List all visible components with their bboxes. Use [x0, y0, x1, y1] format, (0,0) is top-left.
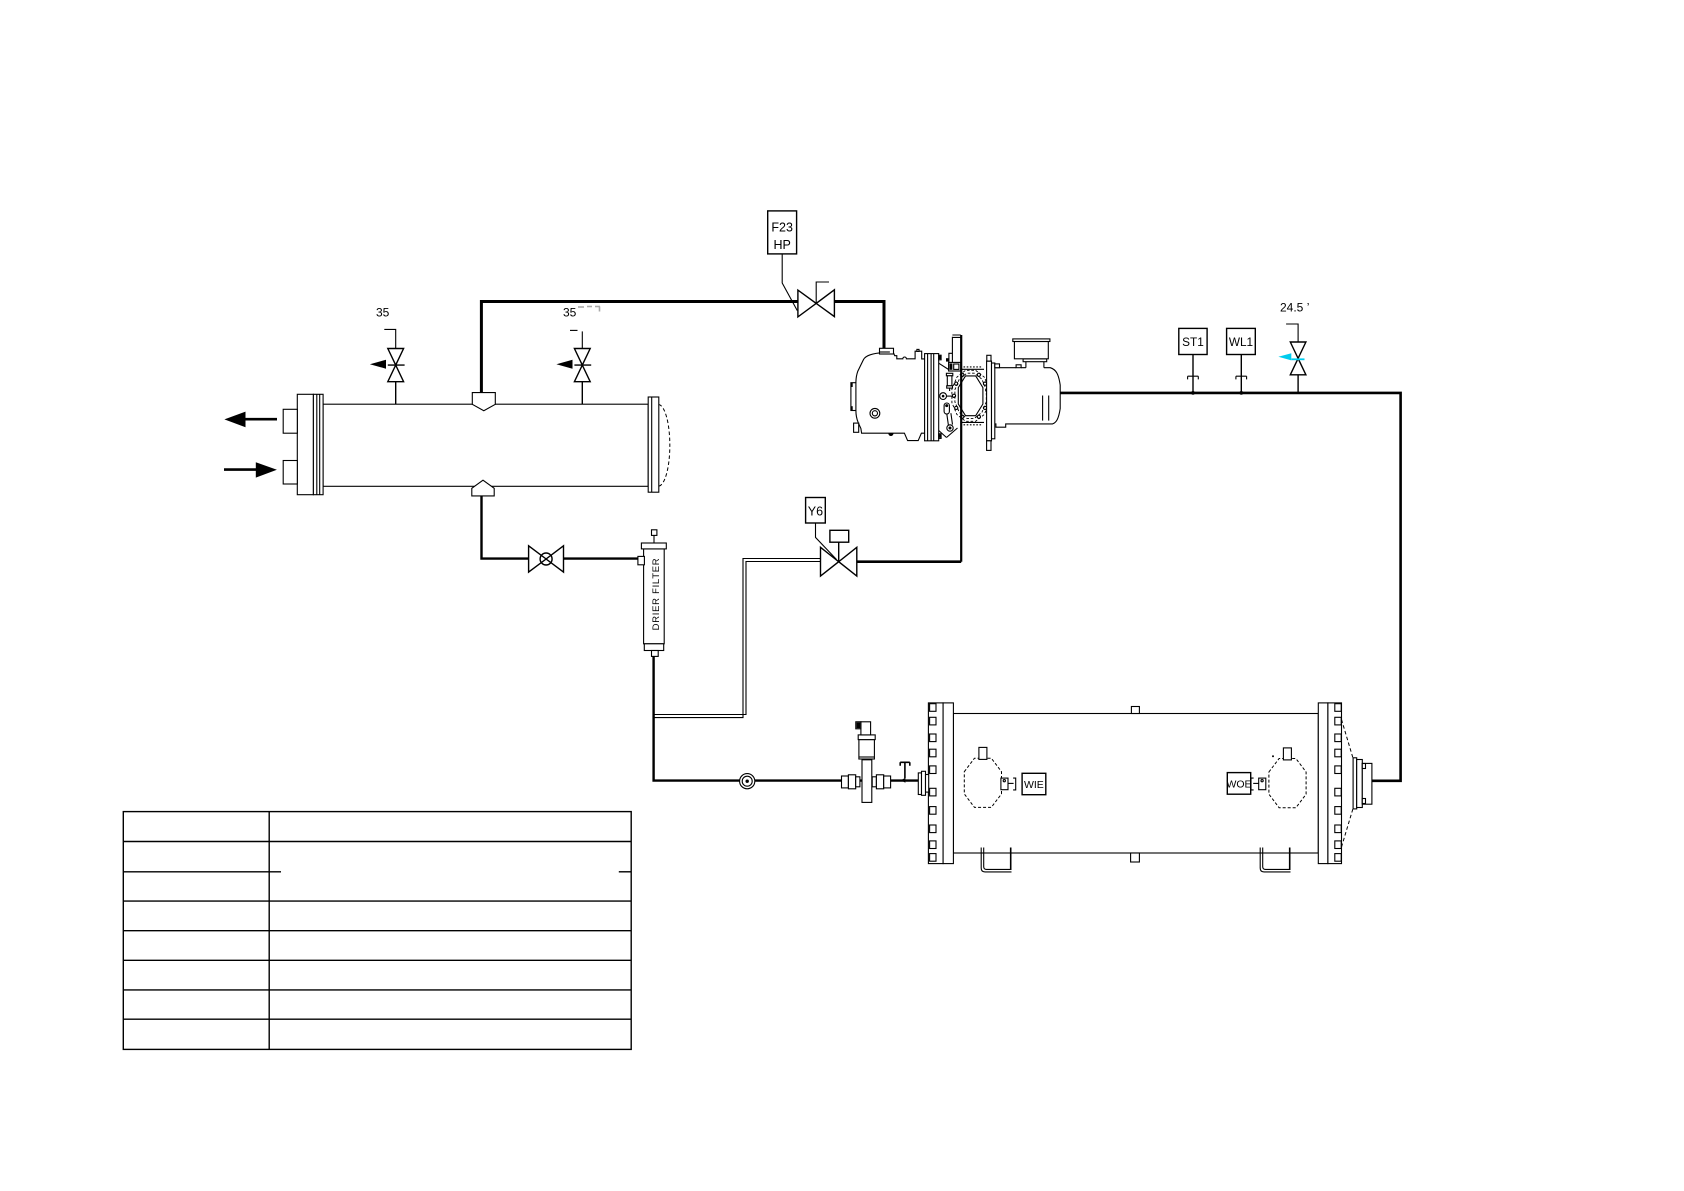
svg-text:Y6: Y6 [808, 505, 823, 519]
wire liquid line ball valve to drier filter [563, 557, 638, 559]
water inlet arrow [224, 468, 258, 471]
compressor motor neck [1025, 362, 1027, 368]
instrument box WOE [1227, 773, 1250, 795]
svg-text:F23: F23 [771, 221, 793, 235]
condenser left tube sheet flange [297, 394, 313, 494]
refrigerant octagon right [1269, 759, 1306, 808]
evaporator left saddle [981, 848, 1011, 872]
evaporator top tab [1131, 707, 1139, 714]
EVAPORATOR [918, 703, 1372, 872]
drier filter [638, 530, 666, 657]
wire economizer line compressor to Y6 valve [857, 560, 961, 563]
svg-text:35: 35 [376, 306, 390, 320]
relief valve 35 #1 [370, 329, 405, 404]
svg-text:WL1: WL1 [1229, 335, 1253, 349]
evaporator bottom tab [1131, 853, 1140, 862]
svg-text:DRIER FILTER: DRIER FILTER [651, 558, 662, 631]
compressor ring dotted strips [964, 366, 982, 368]
wire hot-gas line condenser riser and top run [481, 302, 797, 394]
condenser dished head [659, 405, 670, 487]
WOE fitting [1259, 778, 1266, 790]
instrument box WIE [1022, 773, 1046, 794]
condenser shell [323, 404, 648, 486]
leader line Y6 box to valve [816, 523, 837, 560]
svg-text:35: 35 [563, 306, 577, 320]
valve 24.5 [1278, 324, 1306, 393]
compressor left body outline [856, 351, 925, 440]
compressor solenoid column [946, 373, 952, 376]
compressor capsule fitting [944, 403, 949, 414]
compressor sight port double circle [870, 408, 880, 418]
compressor main flange [925, 354, 939, 441]
svg-text:HP: HP [774, 238, 791, 252]
evaporator right flange teeth [1335, 704, 1341, 861]
compressor suction filter pedestal [1023, 359, 1047, 362]
title block table [123, 812, 631, 1050]
compressor top fittings cluster [949, 362, 961, 371]
instrument box F23 HP [768, 211, 797, 254]
svg-text:WIE: WIE [1024, 779, 1044, 791]
COMPRESSOR [851, 335, 1061, 450]
WL1 stem [1240, 355, 1242, 393]
ST1 stem [1192, 355, 1194, 393]
valve F23 HP [798, 282, 835, 317]
evaporator inlet fitting [918, 773, 921, 795]
thermostatic expansion valve [842, 722, 891, 803]
compressor economizer pipe walls [949, 335, 961, 369]
compressor bolt circle [940, 393, 947, 400]
compressor left protrusion [851, 383, 856, 411]
sight glass [740, 774, 755, 789]
temperature sensor T at evaporator inlet [900, 762, 910, 783]
compressor suction filter cylinder [1014, 342, 1048, 359]
ball valve liquid line [529, 546, 564, 572]
compressor top black fitting [946, 358, 949, 361]
refrigerant inlet octagon left [964, 758, 1001, 807]
water outlet arrow [243, 418, 277, 421]
evaporator right cone [1342, 720, 1353, 848]
wire liquid line condenser bottom to ball valve [482, 496, 529, 559]
svg-text:24.5 ’: 24.5 ’ [1280, 301, 1309, 315]
compressor top fitting notch [917, 349, 919, 351]
instrument box ST1 [1179, 328, 1207, 354]
WIE fitting [1001, 778, 1008, 790]
evaporator shell [953, 714, 1318, 854]
leader line F23 box to valve [782, 254, 797, 311]
compressor ring top shelf [962, 369, 984, 422]
condenser top inlet nozzle pentagon [472, 393, 495, 411]
wire double-line Y6 valve to liquid line outer [654, 559, 821, 718]
svg-text:ST1: ST1 [1182, 335, 1204, 349]
wire double-line Y6 valve to liquid line inner [654, 562, 821, 715]
condenser bottom outlet nozzle pentagon [472, 480, 494, 496]
compressor swing arm [947, 413, 953, 425]
compressor flange ring outer [952, 370, 989, 421]
compressor suction flange [880, 348, 894, 354]
label 35 #2 erased marks [578, 307, 600, 312]
evaporator right flange plates [1318, 703, 1328, 864]
instrument box WL1 [1227, 328, 1256, 354]
compressor motor body [995, 368, 1060, 428]
instrument box Y6 [806, 498, 826, 524]
condenser water inlet nozzle [283, 461, 297, 485]
evaporator right saddle [1260, 848, 1290, 872]
condenser left flange strips [313, 394, 323, 494]
wire suction line evaporator to compressor [1060, 393, 1400, 781]
solenoid expansion valve Y6 [821, 530, 857, 576]
compressor flange ring inner [958, 376, 983, 416]
condenser right flange [648, 397, 659, 492]
evaporator left flange teeth [930, 704, 936, 861]
compressor gusset struts [939, 363, 958, 437]
svg-text:WOE: WOE [1226, 779, 1251, 791]
compressor flange ring middle [955, 373, 986, 418]
wire compressor economizer drop pipe [960, 335, 962, 562]
condenser water outlet nozzle [283, 409, 297, 433]
wire hot-gas line valve to compressor top [835, 302, 884, 349]
evaporator outlet end flange [1353, 758, 1357, 809]
wire liquid line drier to evaporator inlet [654, 656, 919, 780]
compressor bottom black lug [888, 433, 893, 436]
relief valve 35 #2 [556, 330, 591, 404]
compressor motor flange [987, 361, 992, 441]
compressor bottom-left fitting [854, 423, 859, 432]
evaporator left flange plates [928, 703, 943, 864]
compressor motor ribs [1042, 396, 1044, 421]
compressor ring bolts [952, 373, 988, 418]
